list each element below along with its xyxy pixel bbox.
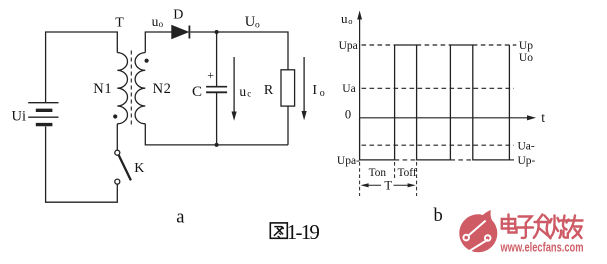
wire top rail to resistor branch: [217, 32, 288, 70]
char fa: [534, 215, 551, 239]
svg-text:Upa-: Upa-: [337, 155, 360, 167]
char zi: [517, 217, 533, 238]
dashed level Up top: [362, 44, 517, 46]
svg-text:Toff: Toff: [398, 167, 417, 179]
svg-text:t: t: [541, 110, 545, 125]
transformer T secondary winding N2: [135, 53, 145, 124]
diode D: [172, 26, 190, 39]
node junction bottom: [215, 143, 219, 147]
svg-text:Up: Up: [519, 40, 533, 52]
svg-text:D: D: [173, 7, 183, 22]
char shao: [550, 216, 569, 238]
wire resistor bottom: [287, 106, 289, 145]
wire battery top to transformer primary: [46, 32, 118, 102]
svg-text:0: 0: [345, 108, 351, 122]
svg-text:T: T: [384, 179, 392, 193]
svg-text:N2: N2: [153, 81, 172, 97]
svg-text:K: K: [134, 161, 144, 176]
svg-text:o: o: [348, 16, 352, 26]
svg-text:R: R: [264, 83, 274, 98]
node junction top: [215, 30, 219, 34]
polarity dot primary: [113, 114, 117, 118]
svg-text:1-19: 1-19: [287, 220, 320, 244]
svg-text:o: o: [159, 19, 164, 29]
svg-text:Uo: Uo: [519, 52, 533, 64]
transformer T primary winding N1: [117, 53, 127, 124]
polarity dot secondary: [145, 59, 149, 63]
svg-text:Up-: Up-: [518, 155, 536, 167]
chart x-axis: [360, 115, 536, 120]
svg-text:Ui: Ui: [12, 108, 27, 124]
switch K: [115, 150, 131, 184]
svg-text:c: c: [247, 89, 251, 99]
arrow Io: [302, 57, 307, 120]
char dian: [502, 215, 517, 233]
wire battery bottom to switch: [46, 127, 118, 203]
svg-text:u: u: [239, 84, 246, 99]
resistor R: [281, 70, 295, 106]
svg-text:C: C: [192, 84, 202, 100]
dashed level Ua-: [362, 144, 515, 146]
svg-text:T: T: [115, 15, 124, 30]
svg-text:b: b: [434, 206, 443, 226]
chart y-axis: [357, 11, 362, 118]
svg-text:o: o: [255, 20, 260, 30]
svg-text:Ua: Ua: [342, 83, 355, 95]
svg-text:www.elecfans.com: www.elecfans.com: [500, 240, 584, 254]
dimension arrow T: [361, 183, 416, 187]
wire bottom rail secondary to resistor: [145, 124, 288, 145]
wire primary bottom to switch top: [116, 124, 118, 150]
dashed level Up-: [395, 159, 514, 161]
svg-text:Ua-: Ua-: [518, 140, 535, 152]
battery Ui: [28, 103, 58, 125]
svg-text:u: u: [152, 14, 159, 29]
svg-text:Upa: Upa: [339, 40, 358, 52]
label uo: [152, 14, 164, 29]
svg-text:N1: N1: [93, 81, 112, 97]
label Io: [312, 83, 324, 99]
char you: [568, 216, 583, 239]
wire secondary top to diode: [145, 32, 172, 53]
waveform square wave: [360, 45, 510, 160]
label Uo: [245, 14, 260, 30]
caption 图1-19 glyph tu: [270, 223, 287, 238]
svg-text:u: u: [341, 11, 348, 26]
wire diode to node: [190, 31, 216, 33]
label uc: [239, 84, 251, 99]
transformer core: [130, 51, 132, 127]
svg-text:+: +: [207, 68, 214, 82]
svg-text:a: a: [176, 208, 184, 228]
watermark logo circle: [459, 210, 497, 252]
svg-text:Ton: Ton: [369, 167, 387, 179]
watermark text dianzifashaoyou: [502, 215, 583, 239]
svg-text:I: I: [312, 83, 317, 98]
label axis uo: [341, 11, 353, 26]
capacitor C: [206, 32, 227, 145]
dashed guide verticals: [360, 162, 417, 196]
svg-text:o: o: [320, 88, 325, 99]
arrow uc: [232, 57, 237, 121]
dashed level Ua: [362, 87, 515, 89]
